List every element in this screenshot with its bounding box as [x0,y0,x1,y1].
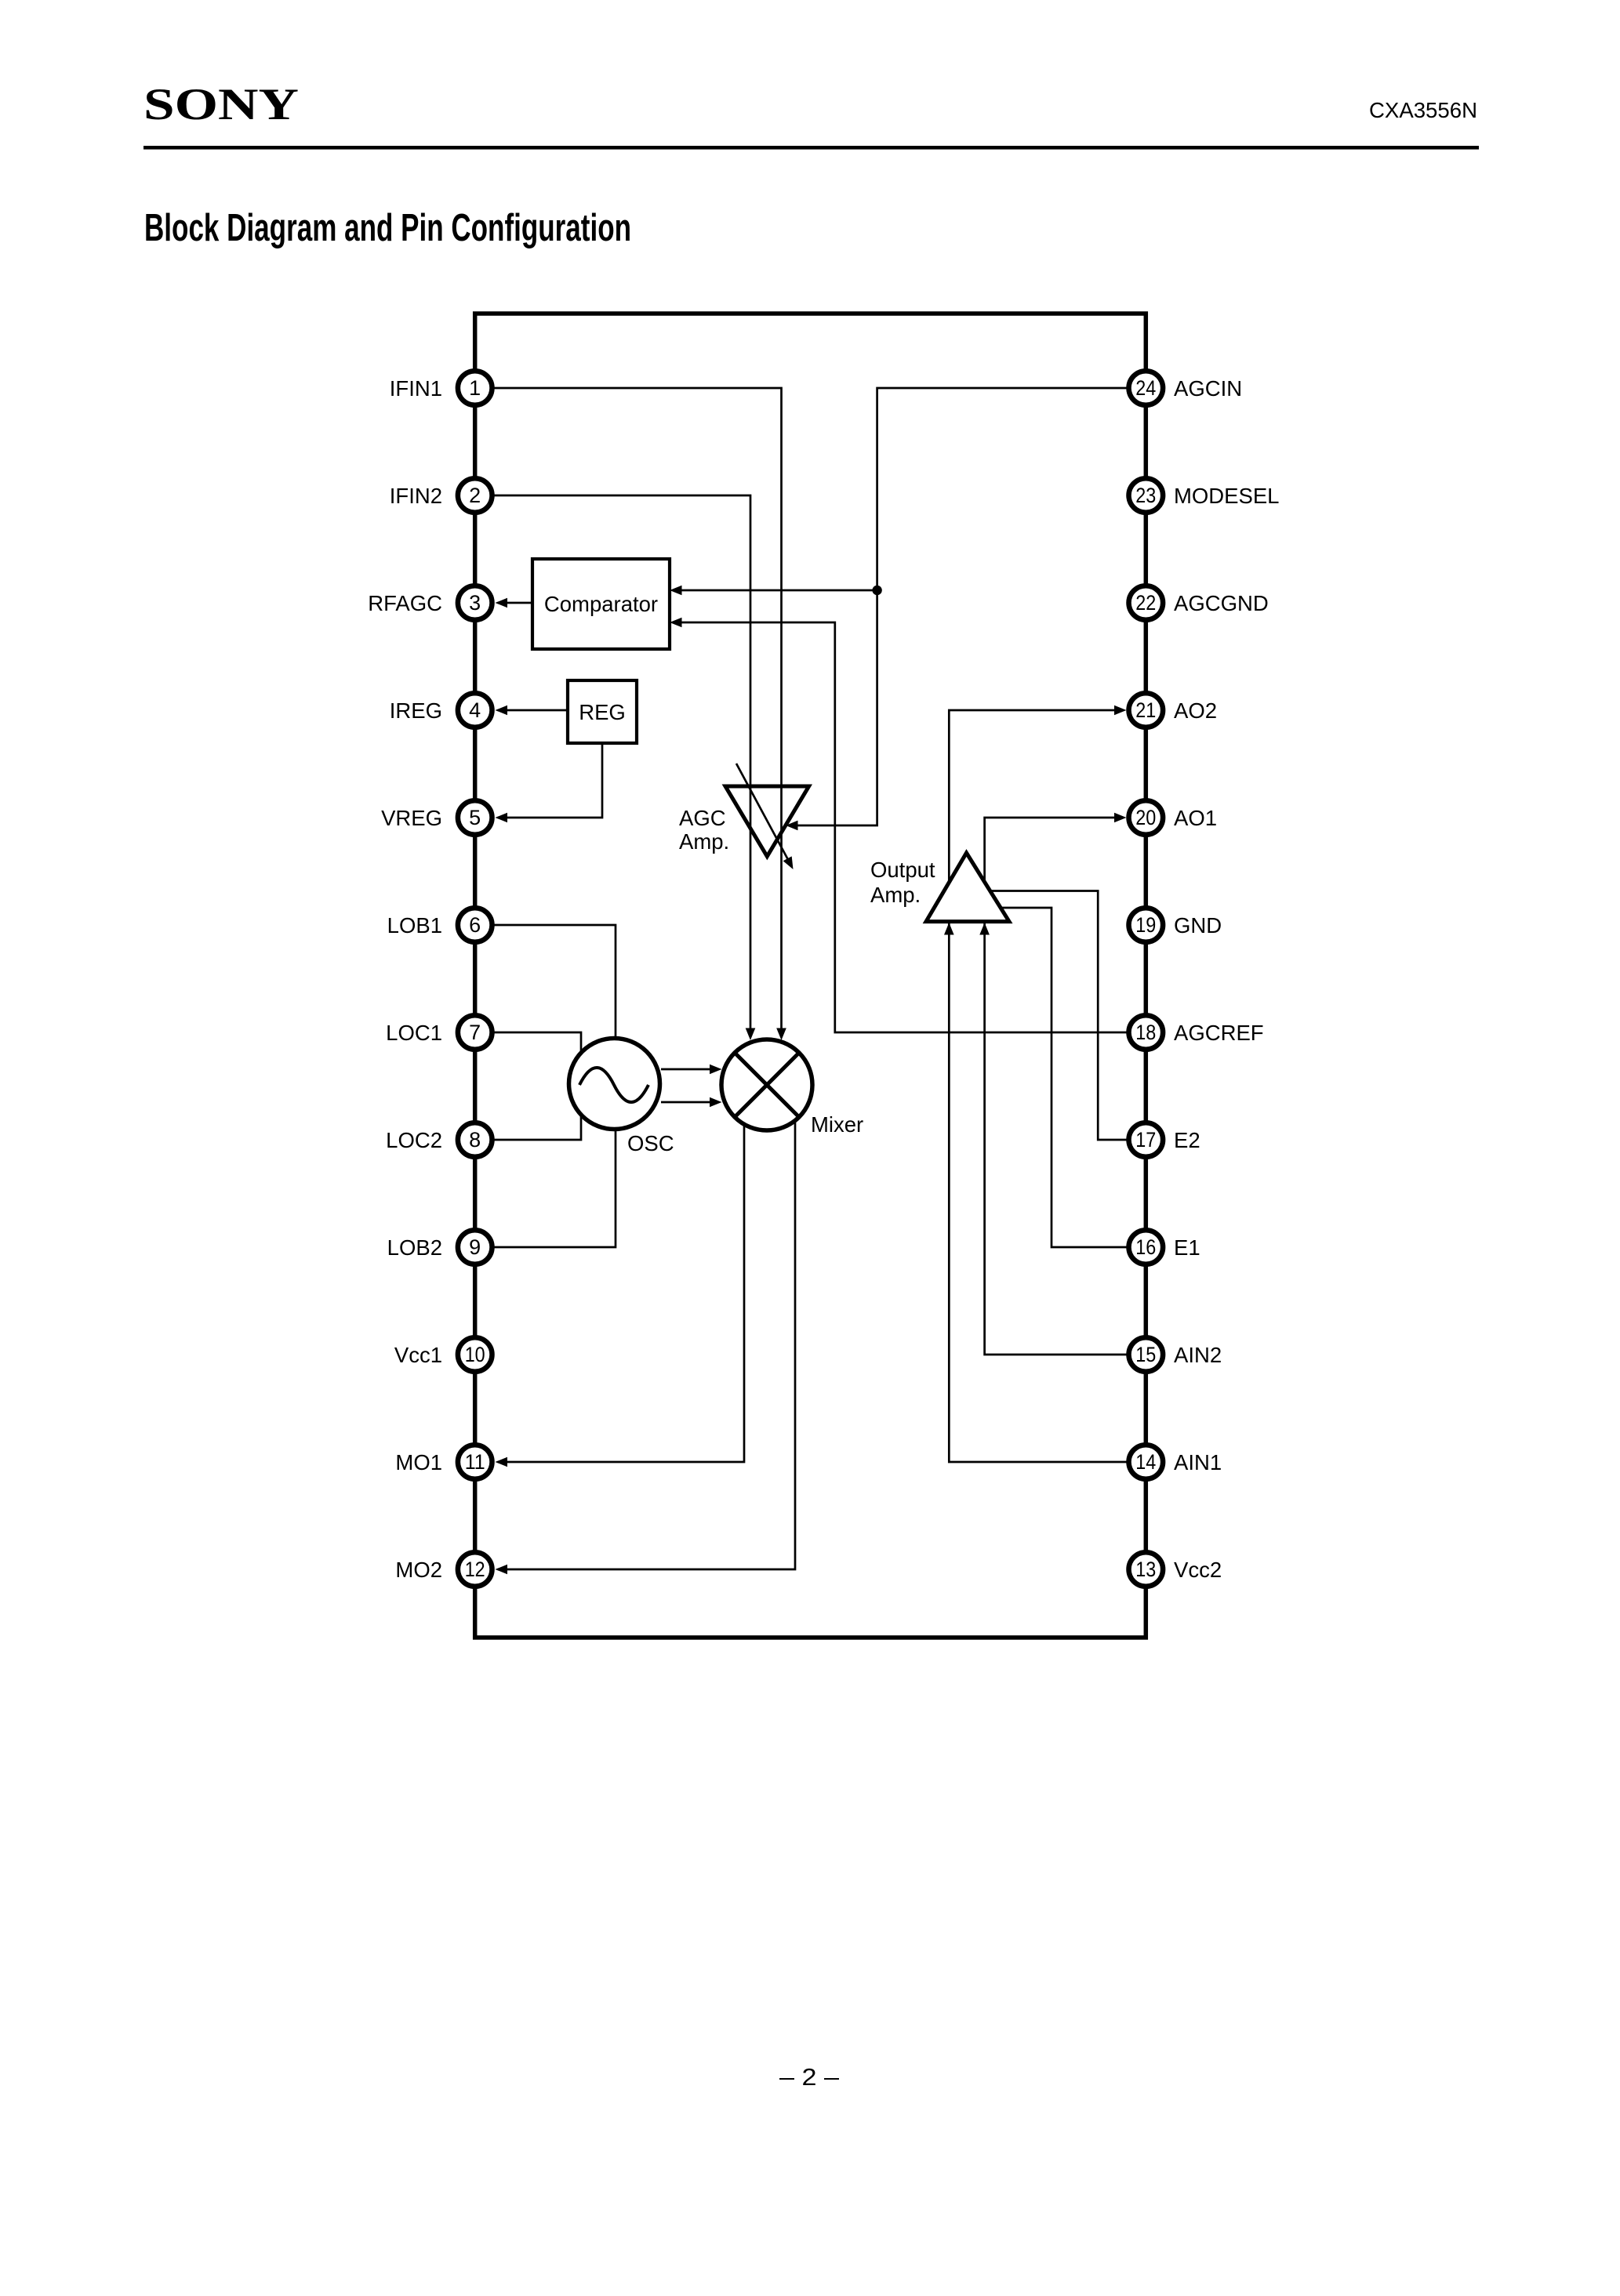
comparator block [532,559,670,649]
pin 23 MODESEL [1129,478,1280,513]
wire LOB2 pin9 to OSC bottom [494,1084,616,1247]
svg-text:23: 23 [1135,484,1156,507]
svg-text:13: 13 [1135,1558,1156,1581]
pin 13 Vcc2 [1129,1552,1222,1587]
svg-text:Output: Output [870,858,935,882]
svg-text:2: 2 [469,484,481,507]
svg-text:21: 21 [1135,698,1156,722]
svg-text:Mixer: Mixer [811,1112,863,1137]
svg-text:22: 22 [1135,591,1156,615]
wire OSC to mixer lower [661,1101,711,1104]
pin 12 MO2 [395,1552,492,1587]
wire comparator input 2 to AGCREF pin18 [681,622,1127,1032]
svg-text:AGC: AGC [679,806,726,830]
pin 7 LOC1 [386,1015,492,1050]
wire comparator output to RFAGC pin3 [507,602,532,604]
pin 11 MO1 [395,1445,492,1479]
svg-text:3: 3 [469,591,481,615]
svg-text:Vcc2: Vcc2 [1174,1558,1222,1582]
pin 2 IFIN2 [390,478,492,513]
svg-text:AGCIN: AGCIN [1174,376,1242,401]
svg-text:LOB1: LOB1 [387,913,442,938]
svg-text:Vcc1: Vcc1 [394,1343,442,1367]
REG block [568,680,637,743]
svg-text:IFIN1: IFIN1 [390,376,442,401]
IC package outline [475,314,1146,1638]
svg-text:14: 14 [1135,1450,1156,1474]
svg-text:Amp.: Amp. [679,829,729,854]
svg-text:AIN2: AIN2 [1174,1343,1222,1367]
wire AIN2 pin15 through output amp to AO1 pin20 [985,818,1127,1355]
svg-text:11: 11 [465,1450,485,1474]
pin 5 VREG [381,800,492,835]
pin 22 AGCGND [1129,586,1269,620]
svg-text:24: 24 [1135,376,1156,400]
wire REG output to IREG pin4 [507,709,568,712]
svg-text:MO1: MO1 [395,1450,442,1474]
svg-text:6: 6 [469,913,481,937]
svg-text:AGCREF: AGCREF [1174,1021,1264,1045]
svg-text:MO2: MO2 [395,1558,442,1582]
pin 18 AGCREF [1129,1015,1264,1050]
pin 19 GND [1129,908,1222,942]
svg-text:15: 15 [1135,1343,1156,1366]
pin 1 IFIN1 [390,371,492,405]
pin 4 IREG [390,693,492,727]
svg-text:E1: E1 [1174,1235,1200,1260]
wire comparator input 1 from AGCIN node [681,589,877,592]
svg-text:RFAGC: RFAGC [368,591,442,615]
svg-text:12: 12 [465,1558,485,1581]
pin 3 RFAGC [368,586,492,620]
wire mixer to MO2 pin12 [507,1085,795,1569]
svg-text:Comparator: Comparator [544,592,658,616]
wire IFIN2 pin2 to mixer input [494,495,750,1029]
svg-text:– 2 –: – 2 – [779,2063,840,2091]
svg-text:MODESEL: MODESEL [1174,484,1279,508]
svg-text:VREG: VREG [381,806,442,830]
svg-text:LOB2: LOB2 [387,1235,442,1260]
pin 10 Vcc1 [394,1337,492,1372]
svg-text:18: 18 [1135,1021,1156,1044]
wire mixer to MO1 pin11 [507,1085,744,1462]
output amp U-OUT [926,853,1009,935]
header rule [143,146,1479,150]
pin 20 AO1 [1129,800,1218,835]
wire OSC to mixer upper [661,1068,711,1071]
wire IFIN1 pin1 to mixer input [494,388,782,1029]
svg-text:19: 19 [1135,913,1156,937]
pin 21 AO2 [1129,693,1218,727]
svg-text:17: 17 [1135,1128,1156,1152]
svg-text:AGCGND: AGCGND [1174,591,1269,615]
svg-text:20: 20 [1135,806,1156,829]
svg-text:AO2: AO2 [1174,698,1217,723]
svg-text:4: 4 [469,698,481,722]
pin 6 LOB1 [387,908,492,942]
pin 14 AIN1 [1129,1445,1222,1479]
wire REG to VREG pin5 [507,743,602,818]
pin 15 AIN2 [1129,1337,1222,1372]
wire LOC1 pin7 to LOC2 pin8 [494,1032,581,1140]
AGC amp (variable gain) [725,764,809,869]
svg-text:5: 5 [469,806,481,829]
svg-text:AO1: AO1 [1174,806,1217,830]
wire AGCIN pin24 to AGC amp control [797,388,1127,825]
svg-text:7: 7 [469,1021,481,1044]
svg-text:1: 1 [469,376,481,400]
svg-text:9: 9 [469,1235,481,1259]
svg-text:REG: REG [579,700,626,724]
svg-text:SONY: SONY [143,80,299,129]
svg-text:LOC2: LOC2 [386,1128,442,1152]
svg-text:10: 10 [465,1343,485,1366]
svg-text:IREG: IREG [390,698,442,723]
svg-text:8: 8 [469,1128,481,1152]
wire output amp to E1 pin16 [1001,908,1127,1247]
pin 24 AGCIN [1129,371,1243,405]
svg-text:LOC1: LOC1 [386,1021,442,1045]
svg-text:GND: GND [1174,913,1222,938]
wire LOB1 pin6 to OSC top [494,925,616,1084]
mixer [721,1039,812,1130]
svg-text:CXA3556N: CXA3556N [1369,98,1477,122]
svg-text:16: 16 [1135,1235,1156,1259]
svg-text:E2: E2 [1174,1128,1200,1152]
wire AIN1 pin14 through output amp to AO2 pin21 [949,710,1127,1462]
svg-text:Block Diagram and Pin Configur: Block Diagram and Pin Configuration [144,206,631,249]
svg-text:OSC: OSC [627,1131,674,1155]
wire output amp to E2 pin17 [990,891,1127,1141]
svg-text:AIN1: AIN1 [1174,1450,1222,1474]
pin 9 LOB2 [387,1230,492,1264]
pin 8 LOC2 [386,1123,492,1157]
pin 17 E2 [1129,1123,1200,1157]
svg-text:IFIN2: IFIN2 [390,484,442,508]
pin 16 E1 [1129,1230,1200,1264]
svg-text:Amp.: Amp. [870,883,921,907]
oscillator OSC [569,1039,660,1130]
junction node AGCIN/comparator [872,586,881,595]
